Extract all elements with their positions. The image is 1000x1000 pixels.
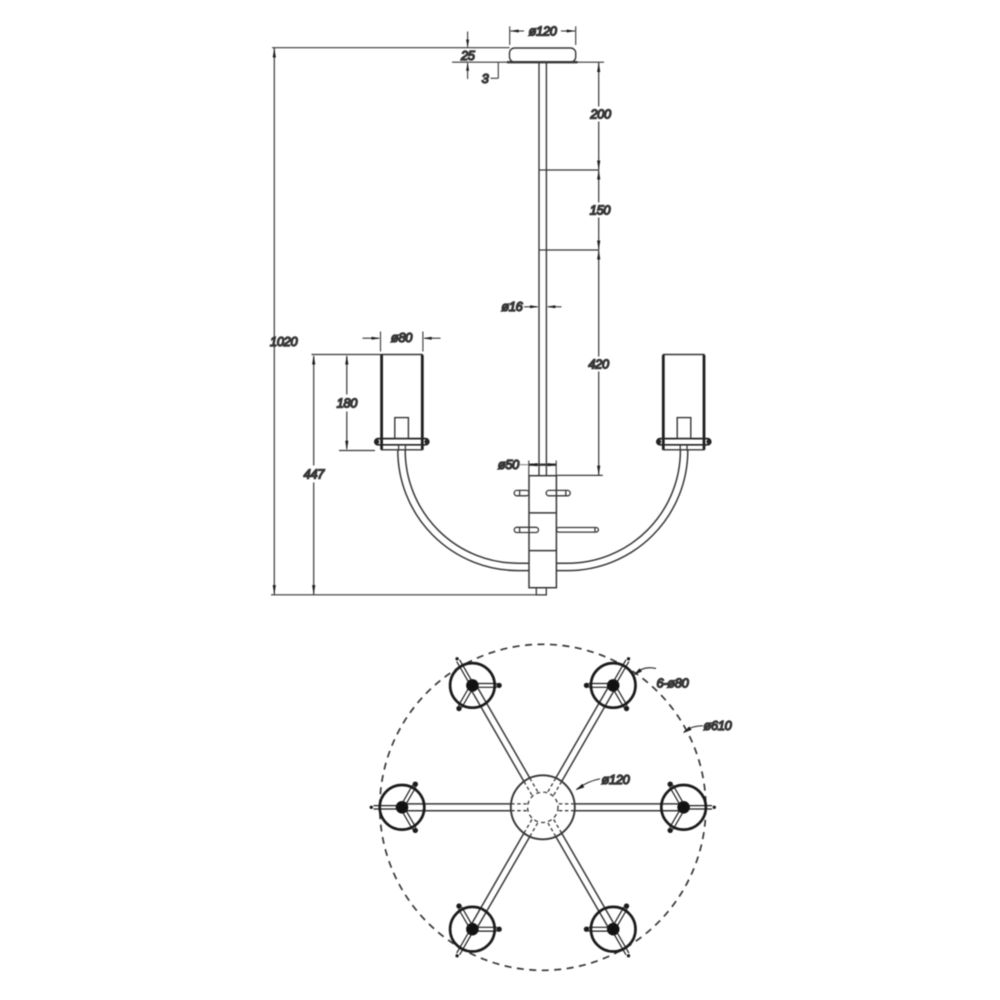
- rod (stem, two vertical lines): [539, 62, 546, 476]
- svg-text:ø16: ø16: [501, 299, 523, 314]
- lamp shade circle phi80 (lower-left): [450, 907, 495, 952]
- rod joint at 350: [539, 249, 547, 251]
- hidden arm segment under canopy (upper-left): [524, 779, 537, 795]
- middle-left pill arm stub: [514, 527, 538, 532]
- lamp center dot (upper-right): [607, 679, 620, 692]
- spoke arm (left): [404, 804, 511, 811]
- hidden hub circle phi50 (dashed): [528, 792, 558, 822]
- left curved arm: [398, 450, 529, 570]
- lamp center dot (lower-left): [466, 923, 479, 936]
- spoke arm (lower-right): [556, 834, 615, 930]
- left stem to arm: [399, 445, 406, 451]
- lamp shade circle phi80 (upper-right): [591, 663, 636, 708]
- svg-text:ø610: ø610: [704, 718, 733, 733]
- label phi610: [683, 726, 703, 733]
- dimension phi16: [524, 305, 562, 308]
- svg-text:ø120: ø120: [602, 772, 631, 787]
- lamp holder prongs (upper-right): [584, 657, 630, 711]
- svg-text:150: 150: [590, 203, 612, 218]
- left socket: [395, 418, 409, 439]
- svg-text:3: 3: [482, 71, 489, 86]
- central hub body: [529, 476, 556, 588]
- svg-text:6-ø80: 6-ø80: [657, 676, 690, 691]
- dimension phi50: [520, 461, 556, 476]
- upper-left pill arm stub: [514, 490, 529, 495]
- left shade (glass cylinder): [381, 355, 423, 450]
- svg-text:180: 180: [337, 395, 359, 410]
- hidden arm segment under canopy (lower-right): [548, 820, 561, 836]
- lamp holder prongs (right): [668, 782, 717, 834]
- canopy: [507, 48, 578, 62]
- right socket: [677, 418, 691, 439]
- dimension 447: [312, 355, 382, 595]
- right stem to arm: [680, 445, 687, 451]
- right shade support ring: [656, 439, 712, 445]
- middle-right long arm stub: [556, 528, 598, 533]
- lamp holder prongs (left): [370, 782, 418, 834]
- dimension 3: [491, 62, 499, 78]
- spoke arm (upper-left): [470, 685, 529, 781]
- spoke arm (right): [575, 804, 682, 811]
- dimension chain 200/150/420 right side: [547, 62, 604, 475]
- svg-text:447: 447: [304, 467, 326, 482]
- lamp holder prongs (lower-left): [455, 903, 501, 957]
- label phi120 (plan): [576, 779, 601, 790]
- svg-text:420: 420: [588, 357, 610, 372]
- hidden arm segment under canopy (upper-right): [548, 779, 561, 795]
- svg-text:ø120: ø120: [529, 24, 558, 39]
- dimension phi120: [510, 26, 576, 45]
- dimension 1020: [271, 48, 536, 595]
- lamp center dot (right): [677, 801, 690, 814]
- hub bottom nub: [536, 588, 546, 595]
- label 6-phi80: [634, 668, 657, 676]
- hidden arm segment under canopy (left): [512, 804, 527, 811]
- dimension 25: [452, 32, 509, 80]
- lamp shade circle phi80 (lower-right): [591, 907, 636, 952]
- rod joint at 200: [539, 169, 547, 171]
- dimension 180: [339, 355, 375, 451]
- hidden arm segment under canopy (lower-left): [524, 820, 537, 836]
- right curved arm: [556, 450, 687, 570]
- upper-right pill arm stub: [546, 490, 570, 495]
- spoke arm (lower-left): [470, 834, 529, 930]
- lamp shade circle phi80 (upper-left): [450, 663, 495, 708]
- spoke arm (upper-right): [556, 685, 615, 781]
- canopy circle phi120 (plan): [511, 775, 575, 839]
- svg-text:ø80: ø80: [391, 330, 413, 345]
- lamp holder prongs (lower-right): [584, 903, 630, 957]
- left shade support ring: [374, 439, 430, 445]
- svg-text:25: 25: [460, 48, 476, 63]
- lamp center dot (upper-left): [466, 679, 479, 692]
- svg-text:200: 200: [589, 107, 612, 122]
- lamp holder prongs (upper-left): [455, 657, 501, 711]
- dashed circle phi610: [380, 644, 706, 970]
- lamp shade circle phi80 (right): [661, 785, 706, 830]
- lamp center dot (lower-right): [607, 923, 620, 936]
- svg-text:ø50: ø50: [498, 457, 520, 472]
- lamp center dot (left): [396, 801, 409, 814]
- hidden arm segment under canopy (right): [559, 804, 574, 811]
- dimension phi80: [363, 332, 441, 352]
- lamp shade circle phi80 (left): [380, 785, 425, 830]
- svg-text:1020: 1020: [270, 334, 298, 349]
- right shade (glass cylinder): [663, 355, 705, 450]
